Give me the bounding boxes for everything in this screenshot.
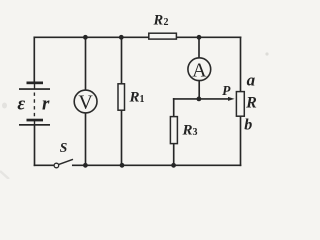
switch S contact circle (54, 163, 59, 168)
junction node top ammeter (197, 35, 202, 40)
rheostat wiper arrowhead (228, 97, 235, 101)
battery cell 1 negative plate (short thick) (27, 82, 44, 85)
wire left vertical (top corner to battery) (33, 37, 35, 82)
wire battery internal stub 2 (34, 121, 36, 125)
wire left vertical (battery to bottom corner) (34, 126, 36, 166)
svg-text:1: 1 (140, 94, 145, 105)
wire right vertical (rheostat to bottom corner) (240, 116, 242, 165)
wire ammeter branch lower (198, 81, 200, 99)
svg-text:R: R (129, 90, 140, 106)
wire bottom (corner to switch) (35, 164, 55, 166)
scan speck left edge (2, 103, 7, 109)
svg-text:R: R (182, 123, 193, 139)
junction node bottom voltmeter (83, 163, 88, 168)
battery internal dashed line (33, 93, 35, 118)
wire top left segment (34, 36, 149, 38)
svg-text:a: a (247, 70, 256, 89)
junction node wiper/ammeter (197, 97, 202, 102)
ammeter U-A circle (188, 58, 211, 81)
resistor R2 body (149, 33, 177, 39)
wire voltmeter branch upper (85, 37, 87, 90)
wire R3 branch lower (173, 144, 175, 166)
junction node bottom R1 (120, 163, 125, 168)
svg-text:A: A (192, 59, 207, 81)
junction node top R1 (119, 35, 124, 40)
scan speck right side (265, 52, 268, 55)
wire R3 branch upper (173, 99, 175, 117)
wire bottom (switch to right corner) (73, 164, 241, 166)
svg-text:2: 2 (164, 17, 169, 28)
svg-text:R: R (245, 95, 257, 112)
battery cell 2 negative plate (short thick) (27, 119, 44, 122)
svg-text:3: 3 (193, 127, 198, 138)
wire battery internal stub 1 (34, 84, 36, 89)
wire R1 branch upper (121, 37, 123, 84)
battery cell 1 positive plate (long thin) (19, 88, 50, 90)
junction node bottom R3 (171, 163, 176, 168)
rheostat R body (236, 92, 244, 117)
svg-text:P: P (222, 83, 231, 98)
junction node top voltmeter (83, 35, 88, 40)
wire ammeter branch upper (198, 37, 200, 58)
voltmeter U-V circle (74, 90, 97, 113)
wire right vertical (top corner to rheostat) (240, 37, 242, 91)
resistor R3 body (170, 117, 177, 144)
scan streak bottom-left corner (0, 171, 9, 179)
wire voltmeter branch lower (85, 113, 87, 165)
wire top right segment (176, 36, 241, 38)
switch S lever (59, 159, 74, 164)
wire wiper horizontal (174, 98, 230, 100)
svg-text:ε: ε (17, 94, 25, 115)
svg-text:b: b (244, 117, 252, 134)
svg-text:V: V (78, 92, 93, 114)
svg-text:S: S (60, 140, 68, 155)
resistor R1 body (118, 84, 125, 110)
battery cell 2 positive plate (long thin) (19, 124, 50, 126)
svg-text:r: r (42, 94, 50, 115)
svg-text:R: R (153, 13, 164, 29)
wire R1 branch lower (121, 110, 123, 165)
